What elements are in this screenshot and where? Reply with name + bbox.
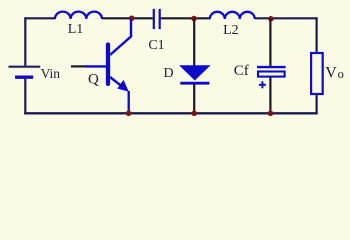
- wire left vertical lower: [24, 79, 26, 115]
- wire L2 to top-right corner: [255, 17, 317, 19]
- wire C1 to L2: [161, 17, 211, 19]
- node junction dot 4 (emitter-bottom): [126, 111, 132, 117]
- svg-text:Vin: Vin: [41, 66, 61, 81]
- wire Cf branch upper: [269, 19, 271, 67]
- node junction dot 1 (collector branch): [129, 15, 135, 21]
- capacitor Cf polarity plus: [259, 81, 266, 88]
- node junction dot 2 (diode branch): [191, 16, 197, 22]
- transistor Q emitter arrowhead: [117, 80, 129, 92]
- diode D cathode bar: [180, 82, 209, 85]
- wire L1 to C1: [102, 17, 153, 19]
- transistor Q base bar: [106, 45, 110, 85]
- resistor load Vo box: [311, 53, 323, 94]
- wire diode branch upper: [193, 19, 195, 67]
- node junction dot 6 (Cf-bottom): [268, 111, 274, 117]
- inductor L2: [210, 12, 255, 19]
- transistor Q collector lead: [110, 19, 131, 55]
- capacitor C1: [154, 9, 160, 29]
- wire emitter vertical: [128, 91, 130, 113]
- svg-text:L1: L1: [68, 22, 84, 37]
- capacitor Cf negative plate (hollow): [258, 72, 285, 77]
- svg-text:Cf: Cf: [234, 63, 249, 79]
- wire left vertical upper: [24, 17, 26, 65]
- wire right vertical lower: [316, 94, 318, 113]
- svg-text:Q: Q: [88, 72, 99, 88]
- wire right vertical upper: [316, 17, 318, 53]
- transistor Q emitter lead: [110, 77, 125, 89]
- wire top-left horizontal: [25, 17, 55, 19]
- battery Vin positive plate: [9, 66, 41, 68]
- node junction dot 3 (Cf branch): [268, 16, 274, 22]
- transistor Q base wire stub: [71, 65, 86, 67]
- wire bottom: [24, 112, 318, 114]
- svg-text:D: D: [164, 66, 174, 81]
- battery Vin negative plate: [15, 75, 33, 78]
- node junction dot 5 (diode-bottom): [191, 111, 197, 117]
- diode D triangle: [180, 66, 209, 80]
- wire Cf branch lower: [269, 78, 271, 114]
- svg-text:V: V: [325, 65, 337, 82]
- transistor Q base lead: [85, 65, 106, 67]
- svg-text:o: o: [338, 67, 344, 81]
- capacitor Cf positive plate: [257, 66, 286, 68]
- wire diode branch lower: [193, 84, 195, 113]
- svg-text:C1: C1: [148, 38, 164, 53]
- svg-text:L2: L2: [223, 23, 239, 38]
- inductor L1: [55, 12, 102, 19]
